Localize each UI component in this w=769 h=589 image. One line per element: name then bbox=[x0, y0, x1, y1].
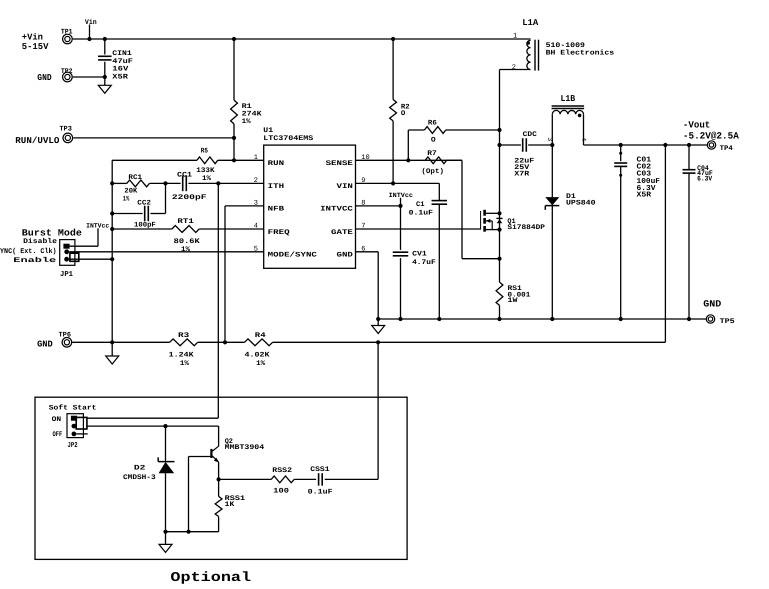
svg-text:3: 3 bbox=[546, 137, 553, 141]
svg-text:2: 2 bbox=[512, 64, 516, 72]
svg-text:CSS1: CSS1 bbox=[310, 466, 329, 474]
svg-text:TP2: TP2 bbox=[61, 68, 73, 76]
svg-text:9: 9 bbox=[361, 177, 365, 185]
svg-text:1: 1 bbox=[513, 32, 517, 40]
svg-text:-5.2V@2.5A: -5.2V@2.5A bbox=[683, 131, 739, 142]
svg-text:Burst Mode: Burst Mode bbox=[22, 228, 82, 239]
svg-text:UPS840: UPS840 bbox=[566, 200, 596, 208]
svg-text:2: 2 bbox=[254, 177, 258, 185]
svg-text:Vin: Vin bbox=[85, 18, 97, 27]
svg-text:MMBT3904: MMBT3904 bbox=[225, 444, 265, 452]
svg-text:GATE: GATE bbox=[331, 229, 353, 237]
svg-text:R5: R5 bbox=[201, 148, 208, 156]
svg-text:Enable: Enable bbox=[13, 256, 56, 265]
svg-text:100: 100 bbox=[273, 488, 289, 496]
svg-text:GND: GND bbox=[37, 73, 52, 83]
svg-text:6.3V: 6.3V bbox=[697, 176, 713, 184]
svg-text:LTC3704EMS: LTC3704EMS bbox=[263, 135, 313, 143]
svg-text:RC1: RC1 bbox=[128, 174, 142, 182]
svg-text:Si7884DP: Si7884DP bbox=[507, 223, 545, 232]
svg-text:NFB: NFB bbox=[268, 206, 285, 214]
svg-text:CV1: CV1 bbox=[412, 251, 427, 259]
svg-text:GND: GND bbox=[703, 299, 721, 310]
svg-text:Optional: Optional bbox=[170, 571, 251, 586]
svg-text:L1A: L1A bbox=[522, 18, 539, 28]
svg-text:OFF: OFF bbox=[53, 431, 63, 439]
svg-text:4: 4 bbox=[254, 223, 258, 231]
svg-text:CC2: CC2 bbox=[137, 200, 151, 208]
svg-text:1%: 1% bbox=[181, 246, 191, 254]
svg-text:CMDSH-3: CMDSH-3 bbox=[123, 474, 156, 482]
svg-text:CIN1: CIN1 bbox=[112, 50, 132, 58]
svg-text:FREQ: FREQ bbox=[268, 229, 290, 237]
svg-text:0.1uF: 0.1uF bbox=[409, 209, 433, 217]
svg-text:X7R: X7R bbox=[514, 171, 530, 179]
svg-text:R3: R3 bbox=[178, 332, 189, 340]
svg-text:TP6: TP6 bbox=[59, 332, 72, 340]
svg-text:4: 4 bbox=[580, 137, 587, 141]
svg-text:JP1: JP1 bbox=[60, 271, 73, 279]
svg-text:1%: 1% bbox=[180, 360, 190, 368]
svg-text:U1: U1 bbox=[263, 127, 273, 135]
svg-text:R4: R4 bbox=[255, 332, 266, 340]
svg-text:O: O bbox=[401, 110, 405, 118]
svg-text:INTVCC: INTVCC bbox=[320, 206, 353, 214]
svg-text:RUN: RUN bbox=[268, 160, 284, 168]
svg-text:CDC: CDC bbox=[523, 131, 537, 139]
svg-text:ON: ON bbox=[52, 416, 62, 424]
svg-text:Disable: Disable bbox=[23, 237, 57, 246]
svg-text:1.24K: 1.24K bbox=[169, 352, 195, 360]
svg-text:4.7uF: 4.7uF bbox=[412, 259, 436, 267]
svg-text:TP3: TP3 bbox=[59, 126, 72, 134]
svg-text:10: 10 bbox=[361, 154, 369, 162]
svg-text:TP5: TP5 bbox=[720, 318, 735, 326]
svg-text:100pF: 100pF bbox=[134, 221, 156, 229]
svg-text:O: O bbox=[431, 137, 436, 145]
svg-text:C1: C1 bbox=[416, 201, 425, 209]
svg-text:1K: 1K bbox=[225, 501, 236, 509]
svg-text:JP2: JP2 bbox=[68, 441, 78, 450]
svg-text:8: 8 bbox=[361, 200, 365, 208]
svg-text:1%: 1% bbox=[242, 118, 252, 126]
svg-text:CC1: CC1 bbox=[177, 171, 192, 179]
svg-text:4.02K: 4.02K bbox=[245, 352, 271, 360]
svg-text:GND: GND bbox=[337, 252, 353, 260]
svg-text:X5R: X5R bbox=[112, 73, 129, 81]
svg-text:INTVcc: INTVcc bbox=[389, 192, 414, 199]
svg-text:(Opt): (Opt) bbox=[421, 167, 444, 176]
svg-text:20K: 20K bbox=[124, 188, 138, 196]
svg-text:VIN: VIN bbox=[337, 183, 353, 191]
svg-text:RT1: RT1 bbox=[177, 218, 193, 226]
svg-text:3: 3 bbox=[254, 200, 258, 208]
svg-text:1: 1 bbox=[254, 154, 258, 162]
svg-text:1%: 1% bbox=[202, 175, 212, 183]
svg-text:1%: 1% bbox=[256, 360, 266, 368]
svg-text:80.6K: 80.6K bbox=[174, 238, 201, 246]
svg-text:YNC( Ext. Clk): YNC( Ext. Clk) bbox=[0, 247, 57, 256]
svg-text:ITH: ITH bbox=[268, 183, 284, 191]
svg-text:5: 5 bbox=[254, 245, 258, 253]
svg-text:R7: R7 bbox=[427, 150, 437, 158]
svg-text:TP4: TP4 bbox=[720, 145, 733, 153]
svg-text:L1B: L1B bbox=[561, 94, 576, 104]
svg-text:6: 6 bbox=[361, 245, 365, 253]
svg-text:5-15V: 5-15V bbox=[22, 42, 49, 52]
svg-text:1W: 1W bbox=[508, 297, 519, 305]
svg-text:MODE/SYNC: MODE/SYNC bbox=[268, 251, 317, 260]
svg-text:GND: GND bbox=[37, 340, 53, 350]
svg-text:X5R: X5R bbox=[637, 192, 652, 200]
svg-text:RSS2: RSS2 bbox=[272, 467, 292, 475]
svg-text:R6: R6 bbox=[428, 119, 437, 127]
svg-text:7: 7 bbox=[361, 223, 365, 231]
svg-text:-Vout: -Vout bbox=[683, 120, 710, 131]
svg-text:1%: 1% bbox=[123, 196, 130, 204]
svg-text:2200pF: 2200pF bbox=[172, 194, 207, 202]
svg-text:Soft Start: Soft Start bbox=[49, 404, 97, 413]
svg-text:D2: D2 bbox=[134, 464, 146, 472]
svg-text:SENSE: SENSE bbox=[326, 160, 353, 168]
svg-text:BH Electronics: BH Electronics bbox=[546, 49, 615, 58]
svg-text:TP1: TP1 bbox=[61, 28, 73, 36]
svg-text:RUN/UVLO: RUN/UVLO bbox=[15, 136, 60, 146]
svg-text:0.1uF: 0.1uF bbox=[308, 489, 333, 497]
